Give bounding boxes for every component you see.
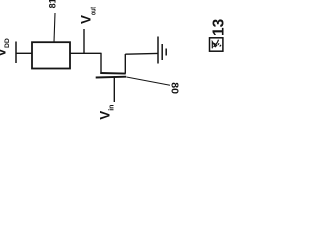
transistor 80 gate lead (113, 77, 115, 102)
svg-text:Vout: Vout (78, 6, 97, 24)
figure label Chinese character (tu / figure) (210, 38, 223, 51)
svg-text:Vin: Vin (97, 105, 115, 120)
resistor 81 (32, 42, 70, 68)
transistor 80 source lead (124, 54, 126, 74)
leader line 80 (127, 77, 171, 85)
svg-text:81: 81 (47, 0, 57, 8)
ground bar 2 (161, 44, 163, 60)
ground bar 3 (165, 49, 167, 56)
transistor 80 channel bar (100, 72, 125, 75)
wire resistor to drain (70, 52, 102, 54)
svg-text:VDD: VDD (0, 38, 11, 57)
power terminal V_DD bar (15, 42, 17, 64)
leader line 81 (54, 13, 55, 42)
ground bar 1 (157, 37, 159, 64)
wire VDD to resistor (16, 52, 32, 54)
svg-text:13: 13 (211, 18, 228, 36)
wire source to ground (125, 52, 157, 55)
node stub V_out (83, 29, 85, 53)
transistor 80 drain lead (100, 53, 102, 74)
svg-text:80: 80 (169, 82, 181, 94)
transistor 80 gate bar (96, 76, 127, 79)
